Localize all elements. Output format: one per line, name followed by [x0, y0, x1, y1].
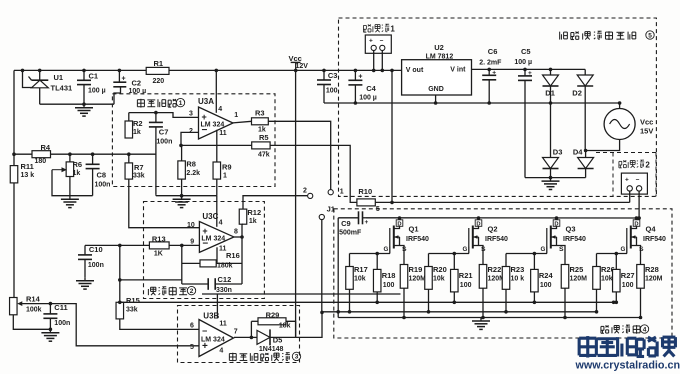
svg-text:3: 3 — [295, 354, 299, 361]
ground under C11 — [41, 329, 59, 341]
label R15 value — [126, 306, 138, 313]
capacitor C10 — [78, 245, 92, 277]
wire: C10/R13 node wire — [85, 244, 149, 246]
capacitor C2 (electrolytic) — [113, 70, 126, 104]
wire: drain bus y=218 — [366, 217, 639, 219]
svg-text:C5: C5 — [521, 47, 531, 56]
label C2 value — [129, 88, 147, 95]
label R14 — [26, 294, 41, 303]
capacitor C3 — [317, 70, 331, 103]
capacitor C4 (electrolytic) — [348, 70, 362, 103]
wire: junction down to R15/busB — [119, 245, 121, 302]
label C6 — [488, 47, 498, 56]
ac source — [586, 103, 636, 151]
node: Q3 drain junction — [555, 216, 559, 220]
svg-text:V out: V out — [406, 67, 424, 74]
node: Q2 gate line junction — [453, 252, 457, 256]
regulator U2 LM7812 box — [402, 60, 472, 95]
svg-text:R15: R15 — [126, 296, 140, 305]
svg-text:180: 180 — [35, 158, 47, 165]
label R10 — [358, 187, 372, 196]
svg-text:D4: D4 — [573, 147, 583, 156]
label R26 — [601, 265, 615, 274]
svg-text:2. 2mF: 2. 2mF — [479, 59, 502, 66]
svg-text:R7: R7 — [134, 163, 144, 172]
label R2 — [133, 119, 143, 128]
capacitor C8 — [86, 154, 100, 196]
node: C8 top junction — [91, 152, 95, 156]
svg-text:TL431: TL431 — [51, 83, 73, 92]
dashed box: constant voltage section 1 — [112, 94, 275, 187]
svg-text:G: G — [541, 246, 546, 253]
svg-text:100 µ: 100 µ — [514, 59, 532, 66]
label Vcc AC — [640, 118, 653, 127]
wire: R16 line — [182, 262, 242, 264]
wire: pole down to gate bus — [321, 220, 323, 313]
label C4 value — [359, 94, 377, 101]
label R13 value — [154, 250, 163, 257]
node: Q1 gate line junction — [375, 252, 379, 256]
svg-text:+: + — [122, 76, 126, 83]
label Q4 IRF540 — [643, 236, 666, 243]
node: R27 to busB corner — [612, 301, 616, 305]
svg-text:D: D — [476, 221, 480, 227]
node: pin2/R5/R8 junction — [179, 144, 183, 148]
label Q2 — [488, 225, 498, 234]
svg-text:R20: R20 — [433, 265, 447, 274]
resistor R12 — [239, 209, 247, 224]
node: C7 top junction — [154, 111, 158, 115]
transistor Q1 IRF540 — [390, 226, 404, 265]
resistor R21 — [451, 254, 459, 303]
pin 4 stem U3C — [216, 196, 218, 227]
svg-text:R22: R22 — [488, 265, 502, 274]
node: D4 top junction — [584, 149, 588, 153]
svg-text:+: + — [625, 177, 629, 184]
node: C11 top junction — [49, 302, 53, 306]
svg-text:5: 5 — [648, 32, 652, 39]
node: AC top junction — [618, 101, 622, 105]
svg-text:R4: R4 — [41, 143, 51, 152]
node: C1 top — [82, 69, 86, 73]
pin 4 stem — [215, 70, 217, 112]
svg-text:8: 8 — [234, 229, 238, 236]
label TL431 — [51, 83, 73, 92]
svg-text:R21: R21 — [459, 271, 473, 280]
node: Q2 drain junction — [477, 216, 481, 220]
svg-text:47k: 47k — [258, 151, 270, 158]
svg-text:1: 1 — [234, 112, 238, 119]
svg-text:+: + — [369, 38, 373, 45]
label Vcc — [289, 54, 302, 63]
pin 11 U3C — [219, 246, 227, 253]
label D3 — [553, 147, 563, 156]
svg-text:S: S — [402, 246, 407, 253]
label R27 value — [622, 282, 634, 289]
wire: bus C gate (y=311.8) — [322, 311, 597, 313]
label S Q4 — [639, 246, 644, 253]
wire: long vertical Vcc/output x=295.6 — [295, 70, 297, 337]
label circled 4 — [640, 325, 648, 334]
node: GND stem junction — [434, 101, 438, 105]
capacitor C6 — [482, 69, 496, 103]
capacitor C12 — [208, 278, 215, 290]
svg-text:+: + — [365, 219, 369, 226]
label C5 — [521, 47, 531, 56]
capacitor C1 — [77, 70, 91, 104]
power Vcc tick — [291, 62, 301, 70]
label R28 value — [645, 276, 663, 283]
resistor R19 — [400, 265, 408, 318]
wire: ground line y=103 — [324, 102, 551, 104]
svg-text:R8: R8 — [186, 160, 196, 169]
svg-text:R12: R12 — [247, 208, 261, 217]
label C8 — [97, 170, 107, 179]
ground under C10 — [76, 277, 94, 289]
svg-text:LM 7812: LM 7812 — [426, 53, 454, 60]
label R9 — [222, 162, 232, 171]
label U1 — [54, 73, 64, 82]
label G Q2 — [463, 246, 468, 253]
dashed box: constant current section 2 — [144, 202, 265, 299]
svg-text:S: S — [481, 246, 486, 253]
svg-text:R11: R11 — [21, 162, 34, 171]
svg-text:120M: 120M — [645, 276, 663, 283]
label G Q4 — [621, 246, 626, 253]
node: pin9 node — [180, 244, 184, 248]
wire: meter2 minus lead — [638, 191, 640, 218]
node: D5/R29 node — [250, 336, 254, 340]
node: R28 bus junction — [639, 316, 643, 320]
svg-text:R27: R27 — [621, 271, 635, 280]
svg-text:IRF540: IRF540 — [485, 236, 508, 243]
svg-text:D: D — [634, 221, 638, 227]
svg-text:4: 4 — [219, 219, 223, 226]
label R1 — [154, 59, 164, 68]
ground under R8 — [173, 196, 191, 208]
svg-text:4: 4 — [643, 326, 647, 333]
svg-text:100n: 100n — [156, 139, 172, 146]
pin 3 — [189, 110, 193, 117]
label R9 value — [223, 173, 227, 180]
node: C11 bottom junction — [49, 328, 53, 332]
svg-text:1k: 1k — [249, 218, 257, 225]
resistor R7 — [125, 154, 133, 179]
svg-text:R3: R3 — [255, 109, 265, 118]
svg-text:−: − — [202, 326, 207, 336]
wire: R29 right leg — [286, 321, 296, 337]
svg-text:Q1: Q1 — [409, 225, 419, 234]
label R10 value — [376, 206, 380, 213]
dashed box: overcurrent section 3 — [178, 306, 300, 363]
label R22 — [488, 265, 502, 274]
node: C1 bottom junction — [82, 102, 86, 106]
label R24 value — [540, 282, 552, 289]
wire: R14 bottom loop — [13, 315, 50, 330]
wire: bus A (y=294) — [202, 293, 401, 295]
svg-text:R17: R17 — [354, 265, 368, 274]
svg-text:S: S — [559, 246, 564, 253]
svg-text:C11: C11 — [54, 303, 67, 312]
svg-text:C9: C9 — [341, 219, 351, 228]
svg-text:13 k: 13 k — [21, 172, 35, 179]
wire: U3A output to R3 — [233, 121, 252, 123]
svg-text:www.crystalradio.cn: www.crystalradio.cn — [575, 360, 680, 372]
ground drive bus — [472, 318, 490, 330]
resistor R9 — [213, 162, 221, 179]
switch J1 contact 2 — [308, 193, 313, 198]
wire: output node vertical x=242 — [241, 224, 243, 284]
svg-text:100n: 100n — [88, 262, 104, 269]
svg-text:C1: C1 — [89, 72, 99, 81]
wire: Q2 gate line — [429, 253, 470, 255]
svg-text:1: 1 — [179, 100, 183, 107]
wire: left vertical rail x=14 from +12V down to R11 — [13, 70, 15, 165]
pin 2 — [189, 128, 193, 135]
svg-text:R29: R29 — [266, 310, 280, 319]
wire: C9 left leg down — [337, 218, 339, 318]
label R25 value — [570, 276, 588, 283]
node: meter1 lead junctions — [372, 69, 384, 73]
label R7 — [134, 163, 144, 172]
wire: Vout column down to R10 wire — [391, 70, 393, 202]
label S Q3 — [559, 246, 564, 253]
wire: main +12V rail (left section, y=70.4) — [14, 69, 296, 71]
svg-text:5: 5 — [376, 206, 380, 213]
wire: feedback left vertical — [181, 245, 183, 284]
svg-text:D: D — [397, 221, 401, 227]
node: D3 bottom junction — [549, 176, 553, 180]
svg-text:6: 6 — [190, 322, 194, 329]
node: R6 top junction — [68, 152, 72, 156]
wire: R4 output wire to R2/R7 — [51, 153, 156, 155]
label G Q3 — [541, 246, 546, 253]
svg-text:D2: D2 — [572, 88, 582, 97]
svg-text:+: + — [528, 70, 532, 77]
svg-text:18k: 18k — [279, 323, 291, 330]
resistor R16 — [200, 260, 216, 267]
svg-text:1: 1 — [223, 173, 227, 180]
resistor R29 — [251, 318, 286, 325]
label Q4 — [646, 225, 657, 234]
label R17 — [354, 265, 368, 274]
label U3A — [198, 97, 214, 106]
pin 4 U3C — [219, 219, 223, 226]
label S Q2 — [481, 246, 486, 253]
svg-text:120M: 120M — [570, 276, 588, 283]
label Q3 — [566, 225, 576, 234]
label R2 value — [133, 129, 141, 136]
node: C2 top — [118, 69, 122, 73]
node: Vcc junction — [294, 69, 298, 73]
svg-text:120M: 120M — [409, 276, 427, 283]
svg-text:100k: 100k — [26, 306, 42, 313]
node: C3 top junction — [322, 69, 326, 73]
svg-text:2: 2 — [303, 187, 307, 194]
ground bridge — [542, 178, 560, 190]
svg-text:1: 1 — [390, 25, 395, 34]
label Q1 IRF540 — [406, 236, 429, 243]
svg-text:4: 4 — [218, 106, 222, 113]
node: R18 bus junction — [375, 301, 379, 305]
node: output-R12 node — [240, 235, 244, 239]
node: R8 bottom junction — [180, 194, 184, 198]
svg-text:220: 220 — [153, 78, 165, 85]
svg-text:R2: R2 — [133, 119, 143, 128]
ground under R6 — [61, 196, 79, 208]
svg-text:100n: 100n — [95, 182, 111, 189]
label Q1 — [409, 225, 419, 234]
svg-text:GND: GND — [428, 86, 444, 93]
label 15V — [640, 127, 653, 136]
node: U3A pin4 stem junction — [215, 69, 219, 73]
svg-text:R6: R6 — [73, 160, 83, 169]
label LM 7812 — [426, 53, 454, 60]
label U3C — [202, 212, 218, 221]
transistor Q3 IRF540 — [547, 226, 565, 265]
pin 9 — [190, 238, 194, 245]
wire: R2 top / pin3 wire — [129, 113, 199, 118]
wire: R15 bottom to pin6 — [120, 319, 199, 330]
label circled 3 — [292, 352, 300, 361]
pin 7 — [234, 328, 238, 335]
label R5 value — [258, 151, 270, 158]
label C11 — [54, 303, 67, 312]
pin 11 stem U3B — [216, 294, 218, 318]
label C10 value — [88, 262, 104, 269]
svg-text:10k: 10k — [354, 276, 366, 283]
node: R17 gate bus junction — [348, 310, 352, 314]
wire: rail below R11 down to R14 — [13, 183, 15, 298]
node: Q3 gate line junction — [533, 252, 537, 256]
watermark url — [575, 360, 680, 372]
label R21 value — [460, 282, 472, 289]
resistor R18 — [373, 254, 381, 303]
label D5 value — [259, 346, 284, 353]
wire: bus B sense (y=302.3) — [120, 301, 614, 303]
label R23 value — [511, 276, 525, 283]
svg-text:D5: D5 — [273, 336, 283, 345]
svg-text:R16: R16 — [226, 251, 240, 260]
label C9 — [341, 219, 351, 228]
svg-text:C8: C8 — [97, 170, 107, 179]
label C3 — [328, 71, 338, 80]
svg-text:G: G — [384, 246, 389, 253]
label R11 — [21, 162, 34, 171]
label 12V — [296, 63, 309, 70]
svg-text:100: 100 — [540, 282, 552, 289]
label R16 — [226, 251, 240, 260]
svg-text:Q2: Q2 — [488, 225, 498, 234]
svg-text:IRF540: IRF540 — [563, 236, 586, 243]
label Vint pin — [450, 67, 466, 74]
resistor R27 — [613, 254, 621, 303]
wire: U3A pin2 input — [181, 132, 199, 145]
label section2 hanzi 恒流电路 — [148, 287, 187, 296]
label contact 1 — [340, 188, 344, 195]
wire: D5 output up to gate bus node — [296, 312, 322, 337]
svg-text:R1: R1 — [154, 59, 164, 68]
svg-text:1: 1 — [340, 188, 344, 195]
resistor R8 — [178, 145, 186, 179]
label R7 value — [133, 173, 145, 180]
resistor R15 — [116, 302, 124, 319]
label R20 — [433, 265, 447, 274]
svg-text:100: 100 — [460, 282, 472, 289]
pin 10 — [187, 222, 195, 229]
wire: R5 wire — [181, 144, 252, 146]
svg-text:+: + — [492, 69, 496, 76]
potentiometer R14 — [10, 298, 49, 315]
label Q3 IRF540 — [563, 236, 586, 243]
label R4 value — [35, 158, 47, 165]
transistor Q4 IRF540 — [627, 226, 641, 265]
svg-text:33k: 33k — [126, 306, 138, 313]
label R19 value — [409, 276, 427, 283]
dashed box: power source section 5 — [339, 18, 657, 196]
label R3 value — [258, 127, 266, 134]
node: R20 gate bus junction — [427, 310, 431, 314]
wire: U3B output — [234, 336, 252, 338]
resistor R10 — [357, 199, 375, 206]
label meter2 hanzi 万用表 — [619, 160, 644, 168]
wire: U3C output — [234, 236, 242, 238]
svg-text:2: 2 — [190, 288, 194, 295]
label R29 — [266, 310, 280, 319]
svg-text:R10: R10 — [358, 187, 372, 196]
label GND pin — [428, 86, 444, 93]
wire: bridge bottom line — [525, 177, 586, 179]
pin 5 — [190, 344, 194, 351]
svg-text:U1: U1 — [54, 73, 64, 82]
svg-text:Q4: Q4 — [646, 225, 657, 234]
label R26 value — [601, 276, 613, 283]
diode D1 — [543, 69, 559, 103]
wire: ground line under C1/C2 (y=104.2) — [40, 103, 114, 105]
meter 1 box — [365, 35, 391, 53]
node: C4 top junction — [354, 69, 358, 73]
svg-text:C4: C4 — [366, 84, 376, 93]
svg-text:C3: C3 — [328, 71, 338, 80]
label R14 value — [26, 306, 42, 313]
capacitor C5 — [518, 69, 532, 177]
wire: meter1 leads — [374, 51, 383, 71]
label C2 plus — [122, 76, 126, 83]
label R20 value — [433, 276, 445, 283]
label section4 hanzi 驱动电路 — [601, 325, 640, 334]
label C7 value — [156, 139, 172, 146]
resistor R11 — [10, 166, 18, 183]
wire: R29 left leg — [250, 321, 252, 337]
label C9 value — [339, 230, 362, 237]
svg-text:10k: 10k — [601, 276, 613, 283]
wire: Vout line Vcc to LM7812 — [296, 69, 402, 71]
wire: R7 bottom to U3C pin10 — [129, 179, 200, 228]
op-amp U3A — [199, 107, 234, 139]
label R12 — [247, 208, 261, 217]
label D5 — [273, 336, 283, 345]
svg-text:12V: 12V — [296, 63, 309, 70]
label C12 — [218, 275, 232, 284]
resistor R3 — [252, 118, 269, 125]
node: rail-R4 junction — [12, 152, 16, 156]
svg-text:V int: V int — [450, 67, 466, 74]
label D pad Q2 — [475, 218, 482, 227]
diode D5 1N4148 — [252, 329, 296, 345]
resistor R25 — [561, 265, 569, 318]
svg-text:C10: C10 — [89, 245, 103, 254]
label U3B — [203, 311, 219, 320]
